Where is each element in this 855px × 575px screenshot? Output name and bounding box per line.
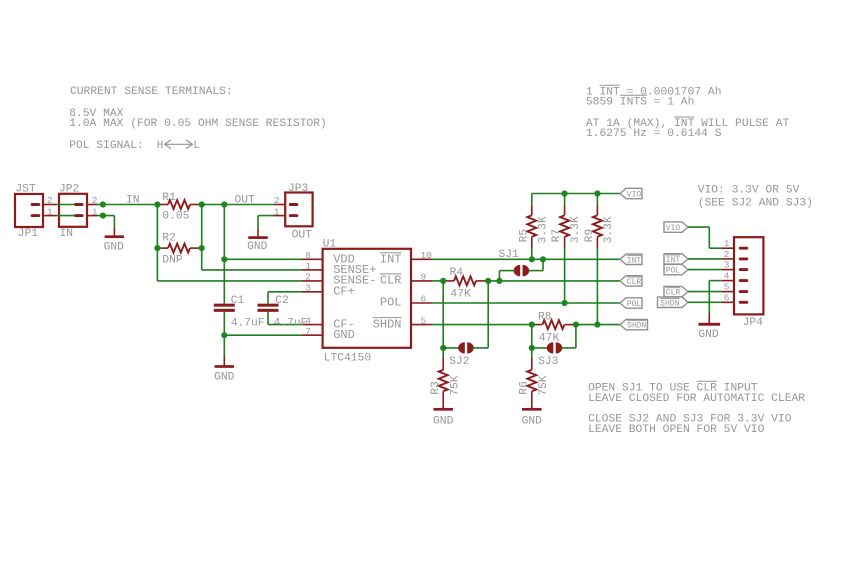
svg-text:3: 3	[724, 260, 730, 271]
svg-text:GND: GND	[333, 328, 355, 342]
svg-text:2: 2	[305, 272, 311, 283]
svg-text:LTC4150: LTC4150	[324, 353, 372, 365]
svg-text:VIO: VIO	[627, 191, 642, 200]
svg-text:2: 2	[47, 195, 53, 206]
svg-text:CURRENT SENSE TERMINALS:: CURRENT SENSE TERMINALS:	[70, 86, 233, 98]
svg-text:2: 2	[724, 249, 730, 260]
svg-text:8: 8	[305, 250, 311, 261]
svg-text:VIO: VIO	[666, 224, 681, 233]
svg-text:4.7uF: 4.7uF	[274, 318, 308, 330]
svg-text:DNP: DNP	[162, 254, 183, 266]
svg-text:INT: INT	[380, 252, 402, 266]
svg-text:GND: GND	[247, 241, 268, 253]
svg-text:(SEE SJ2 AND SJ3): (SEE SJ2 AND SJ3)	[698, 197, 813, 209]
svg-text:GND: GND	[433, 415, 454, 427]
svg-text:2: 2	[92, 195, 98, 206]
svg-text:CLR: CLR	[380, 274, 402, 288]
svg-text:POL: POL	[666, 267, 681, 276]
svg-text:L: L	[193, 140, 200, 152]
svg-text:R6: R6	[518, 381, 530, 395]
svg-text:INT: INT	[666, 256, 681, 265]
svg-text:SHDN: SHDN	[627, 322, 646, 331]
svg-text:R8: R8	[538, 311, 552, 323]
svg-text:3.3K: 3.3K	[537, 216, 549, 243]
svg-text:75K: 75K	[538, 375, 550, 396]
svg-text:POL: POL	[627, 300, 642, 309]
svg-text:SHDN: SHDN	[660, 299, 679, 308]
svg-text:GND: GND	[522, 415, 543, 427]
svg-text:9: 9	[421, 272, 427, 283]
svg-text:SJ2: SJ2	[449, 356, 469, 368]
svg-text:VIO: 3.3V OR 5V: VIO: 3.3V OR 5V	[698, 184, 800, 196]
svg-text:CF+: CF+	[333, 284, 355, 298]
svg-text:IN: IN	[126, 194, 140, 206]
svg-text:H: H	[157, 140, 164, 152]
svg-text:POL: POL	[380, 296, 402, 310]
svg-text:3: 3	[305, 283, 311, 294]
svg-text:1.0A MAX (FOR 0.05 OHM SENSE R: 1.0A MAX (FOR 0.05 OHM SENSE RESISTOR)	[69, 118, 327, 130]
svg-text:JP3: JP3	[288, 183, 309, 195]
svg-text:R5: R5	[518, 229, 530, 243]
svg-text:5859 INTS = 1 Ah: 5859 INTS = 1 Ah	[586, 96, 694, 108]
svg-text:JP2: JP2	[59, 183, 79, 195]
svg-text:0.05: 0.05	[162, 211, 189, 223]
svg-text:SJ1: SJ1	[499, 249, 520, 261]
svg-text:2: 2	[274, 195, 280, 206]
svg-text:LEAVE BOTH OPEN FOR 5V VIO: LEAVE BOTH OPEN FOR 5V VIO	[588, 424, 764, 436]
svg-text:SHDN: SHDN	[373, 317, 402, 331]
svg-text:1: 1	[47, 206, 53, 217]
svg-text:IN: IN	[60, 228, 74, 240]
svg-text:R9: R9	[584, 229, 596, 243]
svg-text:5: 5	[724, 282, 730, 293]
svg-text:3.3K: 3.3K	[603, 216, 615, 243]
svg-text:1: 1	[274, 206, 280, 217]
svg-text:GND: GND	[214, 371, 235, 383]
svg-text:47K: 47K	[450, 289, 471, 301]
svg-text:6: 6	[724, 292, 730, 303]
svg-text:6: 6	[421, 294, 427, 305]
svg-text:1.6275 Hz = 0.6144 S: 1.6275 Hz = 0.6144 S	[586, 128, 722, 140]
svg-text:R1: R1	[162, 192, 176, 204]
svg-text:INT: INT	[627, 256, 642, 265]
svg-text:C2: C2	[275, 295, 289, 307]
svg-text:75K: 75K	[449, 375, 461, 396]
svg-text:OUT: OUT	[292, 230, 313, 242]
svg-text:JP1: JP1	[18, 228, 39, 240]
svg-text:R2: R2	[162, 233, 176, 245]
svg-text:LEAVE CLOSED FOR AUTOMATIC CLE: LEAVE CLOSED FOR AUTOMATIC CLEAR	[588, 393, 805, 405]
svg-text:C1: C1	[231, 295, 245, 307]
svg-text:3.3K: 3.3K	[570, 216, 582, 243]
svg-text:4.7uF: 4.7uF	[231, 318, 265, 330]
svg-text:CLR: CLR	[666, 289, 681, 298]
svg-text:1: 1	[724, 238, 730, 249]
svg-text:CLR: CLR	[627, 278, 642, 287]
svg-text:OUT: OUT	[235, 194, 256, 206]
svg-text:10: 10	[421, 250, 433, 261]
svg-text:JP4: JP4	[743, 317, 764, 329]
svg-text:GND: GND	[104, 241, 125, 253]
svg-text:1: 1	[92, 206, 98, 217]
svg-text:JST: JST	[15, 183, 36, 195]
svg-text:GND: GND	[698, 329, 719, 341]
svg-text:1: 1	[305, 261, 311, 272]
svg-text:R7: R7	[551, 229, 563, 243]
svg-text:R4: R4	[450, 267, 464, 279]
svg-text:SJ3: SJ3	[538, 356, 559, 368]
svg-text:4: 4	[724, 271, 730, 282]
svg-text:R3: R3	[430, 381, 442, 395]
svg-text:5: 5	[421, 315, 427, 326]
svg-text:U1: U1	[323, 238, 337, 250]
svg-text:POL SIGNAL:: POL SIGNAL:	[69, 140, 144, 152]
